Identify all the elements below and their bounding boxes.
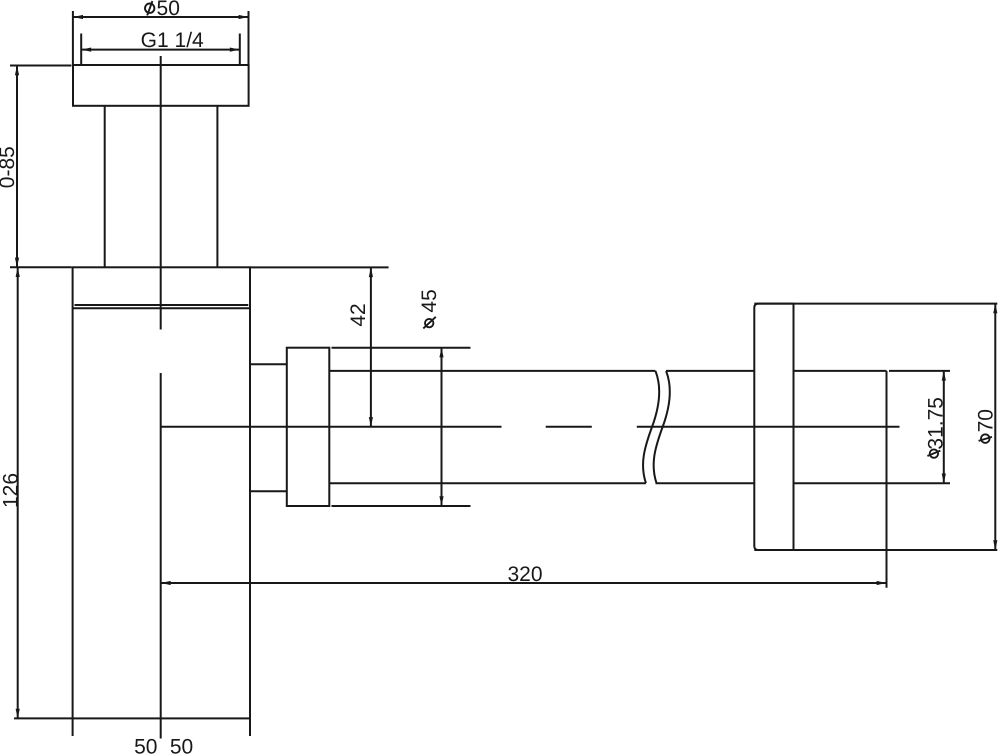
label phi45 — [418, 289, 441, 328]
svg-text:31.75: 31.75 — [924, 397, 947, 450]
outlet pipe bottom line right of break — [656, 482, 755, 484]
dim phi31.75 extension line top — [889, 370, 950, 372]
outlet stub bottom line — [250, 490, 287, 492]
svg-text:42: 42 — [347, 303, 370, 326]
outlet pipe top line right of break — [666, 370, 754, 372]
inlet pipe left line — [104, 106, 106, 267]
tick top left — [10, 65, 72, 67]
wall body right edge — [886, 371, 888, 588]
body bottom tick extension — [14, 717, 73, 719]
break curve left — [643, 371, 659, 483]
tick middle left — [10, 266, 72, 268]
label phi31.75 — [924, 397, 947, 458]
svg-text:50: 50 — [170, 735, 193, 755]
outlet pipe top line behind wall — [794, 370, 887, 372]
label phi70 — [975, 409, 998, 443]
svg-text:0-85: 0-85 — [0, 146, 19, 188]
outlet stub top line — [250, 363, 287, 365]
dim G1 1/4 extension line right — [239, 34, 241, 65]
horizontal center line segment 2 — [546, 426, 592, 428]
dim phi50 extension line right — [248, 11, 250, 65]
svg-text:50: 50 — [134, 735, 157, 755]
dim G1 1/4 extension line left — [80, 34, 82, 65]
dim 126 dimension line — [16, 267, 20, 718]
dim phi31.75 dimension line — [942, 371, 946, 483]
wall flange top line — [754, 303, 997, 305]
horizontal center line segment 1 — [161, 426, 502, 428]
dim phi70 dimension line — [993, 304, 997, 550]
outlet pipe top line left of break — [329, 370, 655, 372]
svg-text:320: 320 — [507, 563, 542, 586]
body right edge extension below — [249, 718, 251, 736]
body left edge extension below — [72, 718, 74, 736]
vertical center line lower segment — [160, 373, 162, 739]
body cap joint line inset — [75, 304, 249, 306]
dim 320 dimension line — [161, 581, 886, 585]
svg-text:126: 126 — [0, 473, 23, 508]
dim 0-85 dimension line — [15, 66, 19, 268]
break curve right — [654, 371, 670, 483]
svg-text:50: 50 — [157, 0, 180, 20]
wall flange left edge — [754, 304, 793, 550]
trap body — [73, 267, 250, 718]
dim phi45 extension line top — [332, 347, 471, 349]
dim phi50 extension line left — [72, 11, 74, 65]
wall flange bottom line — [754, 549, 997, 551]
dim phi45 dimension line — [439, 348, 443, 506]
inlet pipe right line — [216, 106, 218, 267]
svg-text:45: 45 — [418, 289, 441, 312]
dim 42 dimension line — [369, 267, 373, 426]
svg-text:70: 70 — [975, 409, 998, 432]
wall flange division line — [793, 304, 795, 550]
svg-text:G1 1/4: G1 1/4 — [141, 29, 204, 52]
outlet pipe bottom line behind wall — [794, 482, 951, 484]
dim G1 1/4 dimension line — [82, 48, 240, 52]
compression nut — [287, 348, 330, 506]
horizontal center line segment 3 — [637, 426, 900, 428]
label phi50 — [145, 0, 180, 20]
dim 42 tick — [250, 266, 389, 268]
inlet flange — [73, 65, 249, 106]
outlet pipe bottom line left of break — [329, 482, 646, 484]
dim phi50 dimension line — [73, 15, 248, 19]
dim phi45 extension line bottom — [332, 505, 471, 507]
vertical center line upper segment — [160, 56, 162, 330]
body cap joint line full — [73, 307, 250, 309]
